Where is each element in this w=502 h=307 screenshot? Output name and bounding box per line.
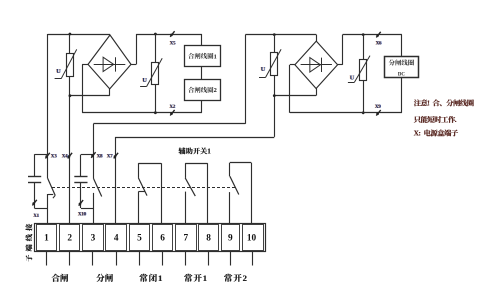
terminal X1 tick [32, 200, 36, 206]
wire open-group tee [81, 154, 94, 156]
coil box closing-coil-2 [185, 80, 221, 101]
label X9 [374, 105, 381, 110]
svg-text::: : [419, 129, 421, 138]
label NO1 (chang-kai-1) [184, 273, 207, 283]
svg-text:2: 2 [67, 234, 72, 244]
terminal X2 tick [170, 110, 174, 116]
wire varistor R1 top lead [69, 34, 71, 53]
wire between coils [201, 67, 203, 80]
wire D1 AC2 lead to node [70, 89, 110, 96]
resistor R4 varistor U [348, 56, 370, 83]
svg-text:X2: X2 [169, 105, 175, 110]
svg-text:U: U [261, 66, 266, 73]
label X1 [33, 214, 40, 219]
note line 2 [414, 115, 457, 124]
svg-text:1: 1 [207, 148, 211, 156]
terminal X10 tick [79, 200, 83, 206]
wire C2 bottom lead [80, 183, 82, 208]
terminal X7 tick [114, 153, 118, 159]
label X6 [375, 42, 382, 47]
resistor R3 varistor U [259, 49, 281, 77]
switch S4 NO spare contact [185, 163, 207, 223]
wire bottom DC- bus left [82, 112, 202, 114]
terminal X5 tick [170, 31, 174, 37]
wire coil2 bottom lead [201, 100, 203, 112]
svg-text:6: 6 [160, 234, 165, 244]
svg-text:X3: X3 [51, 155, 57, 160]
resistor R2 varistor U [140, 58, 162, 86]
wire C1 bottom lead [34, 183, 36, 208]
svg-text:DC: DC [398, 72, 406, 77]
svg-text:X7: X7 [107, 155, 113, 160]
svg-text:U: U [350, 75, 355, 82]
switch S2 NO contact [93, 155, 101, 223]
wire top-right AC bus segment [245, 35, 316, 42]
node varistor R4 top junction [362, 33, 365, 36]
label X2 [169, 105, 176, 110]
node AC1 junction at varistor R1 [69, 33, 72, 36]
wire top-left AC bus [48, 34, 111, 154]
wire bottom DC- bus right [290, 78, 402, 113]
wire close-group join [35, 208, 48, 210]
node varistor R2 top junction [154, 33, 157, 36]
wire top DC+ bus [136, 34, 202, 45]
switch S1 NC contact [48, 154, 56, 223]
svg-text:X1: X1 [33, 214, 39, 219]
terminal cells 1-10 [37, 225, 264, 251]
wire varistor R4 top lead [363, 35, 365, 60]
svg-text:5: 5 [137, 234, 142, 244]
label closing coil 1 text [188, 53, 217, 60]
svg-text:1: 1 [44, 234, 49, 244]
node varistor R3 top junction [273, 33, 276, 36]
terminal X4 tick [68, 153, 72, 159]
node AC2 junction [69, 94, 72, 97]
wire varistor R4 bottom lead [363, 80, 365, 113]
svg-text:1: 1 [203, 273, 207, 283]
node varistor R4 bottom junction [362, 111, 365, 114]
wire open-group join [81, 208, 94, 210]
svg-text:!: ! [428, 99, 430, 108]
wire C1 top lead [34, 154, 36, 177]
svg-text:2: 2 [214, 87, 217, 94]
wire dashed mechanical link [52, 187, 237, 189]
label opening coil DC text [398, 72, 406, 77]
switch S5 NO spare contact [230, 163, 252, 224]
label close (he-zha) [51, 274, 68, 282]
terminal X6 tick [376, 32, 380, 38]
node AC2 right junction [273, 94, 276, 97]
wire terminal-4 vertical [115, 137, 117, 223]
switch S3 NC spare contact [138, 163, 161, 223]
label closing coil 2 text [188, 87, 217, 94]
node varistor R2 bottom junction [154, 111, 157, 114]
label NC1 (chang-bi-1) [139, 273, 162, 283]
terminal X8 tick [91, 152, 95, 158]
svg-text:7: 7 [183, 234, 188, 244]
terminal X3 tick [45, 153, 49, 159]
coil box opening-coil [385, 57, 419, 78]
label X3 [50, 155, 57, 160]
wire varistor R3 bottom lead to wireB [274, 75, 276, 137]
svg-text:X8: X8 [97, 155, 103, 160]
svg-text:2: 2 [243, 273, 247, 283]
wire top DC+ bus right [343, 35, 402, 57]
wire close-group tee [35, 154, 48, 156]
svg-text:10: 10 [247, 234, 257, 244]
svg-text:X4: X4 [62, 155, 68, 160]
wire D1 DC+ lead [131, 34, 137, 65]
wire D2 DC- lead [290, 65, 295, 113]
label X8 [96, 155, 103, 160]
label X5 [169, 41, 176, 46]
label open (fen-zha) [96, 274, 113, 282]
svg-text:U: U [142, 77, 147, 84]
wire varistor R3 top lead [274, 35, 276, 53]
svg-text:1: 1 [158, 273, 162, 283]
terminal strip outer box [35, 224, 266, 252]
note line 1 [414, 99, 474, 108]
wire AC riser from aux contact [245, 35, 247, 124]
wire D2 DC+ lead [338, 35, 343, 65]
svg-text:X9: X9 [375, 105, 381, 110]
label aux-switch-1 [178, 147, 211, 155]
svg-text:X5: X5 [170, 41, 176, 46]
label terminal-block vertical text [25, 224, 32, 262]
terminal strip bottom leads [47, 252, 253, 266]
wire terminal-2 vertical [69, 77, 71, 224]
wire C2 top lead [80, 155, 82, 177]
terminal X9 tick [376, 110, 380, 116]
label X10 [77, 212, 87, 217]
note line 3 [414, 129, 459, 138]
wire D1 DC- lead [82, 64, 88, 112]
svg-text:X6: X6 [376, 42, 382, 47]
bridge rectifier D2 [295, 41, 338, 88]
wire varistor R2 leads [155, 34, 157, 113]
wire B opening-circuit return [116, 137, 274, 139]
svg-text:1: 1 [214, 53, 217, 60]
svg-text:U: U [56, 68, 61, 75]
svg-text:9: 9 [228, 234, 233, 244]
wire A opening-circuit feed [93, 124, 245, 155]
label opening coil text [389, 59, 414, 65]
bridge rectifier D1 [88, 35, 131, 89]
wire D2 AC2 lead [274, 89, 316, 96]
label NO2 (chang-kai-2) [224, 273, 247, 283]
capacitor C2 plates [74, 177, 87, 183]
svg-text:8: 8 [206, 234, 211, 244]
coil box closing-coil-1 [185, 46, 221, 67]
resistor R1 varistor U [55, 49, 77, 78]
svg-text:4: 4 [114, 234, 119, 244]
capacitor C1 plates [28, 177, 41, 183]
svg-text:X10: X10 [78, 212, 87, 217]
label X7 [106, 155, 113, 160]
svg-text:.: . [455, 115, 457, 124]
label X4 [61, 155, 68, 160]
svg-text:3: 3 [91, 234, 96, 244]
